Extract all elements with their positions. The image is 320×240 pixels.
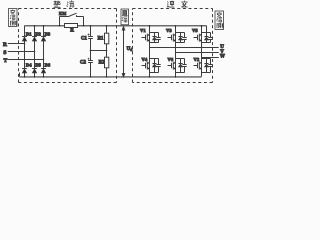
inverter leg 1 column lower bbox=[149, 48, 151, 77]
title 整流 (rectifier) hand-drawn glyphs bbox=[54, 1, 75, 8]
svg-text:V4: V4 bbox=[142, 57, 148, 62]
phase line S bbox=[8, 51, 35, 53]
svg-text:R: R bbox=[70, 29, 74, 34]
svg-text:d: d bbox=[130, 48, 132, 52]
V1 freewheel diode bbox=[152, 33, 156, 43]
node railB-col2 bbox=[34, 76, 36, 78]
inverter leg 3 column lower bbox=[201, 58, 203, 77]
node S-D2 bbox=[34, 51, 36, 53]
inverter section dashed box bbox=[133, 9, 213, 83]
output line V bbox=[176, 52, 219, 54]
DC+ top rail bbox=[25, 25, 207, 27]
V1 cell top link bbox=[150, 32, 159, 34]
inverter leg 2 column upper bbox=[175, 26, 177, 53]
V3 freewheel diode bbox=[178, 33, 182, 43]
rail end drop to V5 diode bbox=[206, 26, 208, 33]
svg-text:D1: D1 bbox=[26, 31, 32, 36]
svg-text:D4: D4 bbox=[26, 62, 32, 67]
svg-text:V3: V3 bbox=[166, 28, 172, 33]
V6 freewheel diode bbox=[178, 59, 182, 73]
svg-text:KM: KM bbox=[59, 11, 66, 16]
svg-text:D6: D6 bbox=[45, 62, 51, 67]
svg-text:C2: C2 bbox=[80, 61, 86, 66]
svg-text:W: W bbox=[220, 55, 225, 60]
node railB-col3 bbox=[43, 76, 45, 78]
node rail-col3 bbox=[43, 25, 45, 27]
svg-text:R1: R1 bbox=[98, 36, 104, 41]
V4 snubber capacitor bbox=[156, 59, 160, 73]
output line U bbox=[150, 47, 219, 49]
V5 snubber capacitor bbox=[208, 33, 212, 43]
svg-text:C1: C1 bbox=[81, 36, 87, 41]
V6 snubber capacitor bbox=[182, 59, 186, 73]
node T-D3 bbox=[43, 59, 45, 61]
rectifier section dashed box bbox=[19, 9, 117, 83]
diode D5 bbox=[32, 68, 37, 70]
svg-text:R: R bbox=[3, 42, 7, 48]
output line W bbox=[202, 57, 219, 59]
svg-text:D5: D5 bbox=[35, 62, 41, 67]
phase line R bbox=[8, 43, 25, 45]
svg-text:S: S bbox=[3, 50, 6, 56]
inverter leg 3 column upper bbox=[201, 26, 203, 58]
title 逆变 (inverter) hand-drawn glyphs bbox=[167, 1, 188, 8]
V3 snubber capacitor bbox=[182, 33, 186, 43]
svg-text:V1: V1 bbox=[140, 28, 146, 33]
svg-text:V2: V2 bbox=[194, 57, 200, 62]
stub at bottom-left rail end bbox=[19, 73, 21, 77]
svg-text:D3: D3 bbox=[45, 31, 51, 36]
V1 snubber capacitor bbox=[156, 33, 160, 43]
node railB-col1 bbox=[24, 76, 26, 78]
V2 snubber capacitor bbox=[208, 59, 212, 73]
DC- bottom rail bbox=[20, 76, 202, 78]
V4 freewheel diode bbox=[152, 59, 156, 73]
DC link box (middle, vertical 直流) bbox=[121, 9, 129, 25]
bridge column 2 bbox=[34, 26, 36, 77]
resistor R (precharge) bbox=[65, 24, 78, 28]
node rail-col2 bbox=[34, 25, 36, 27]
bridge column 1 bbox=[24, 26, 26, 77]
AC input box (left, vertical 交流侧) bbox=[9, 9, 18, 27]
bridge column 3 bbox=[43, 26, 45, 77]
phase line T bbox=[8, 59, 44, 61]
svg-text:T: T bbox=[4, 58, 8, 64]
svg-text:D2: D2 bbox=[35, 31, 41, 36]
V1 cell bottom link bbox=[150, 42, 159, 44]
diode D6 bbox=[41, 68, 46, 70]
AC output box (right, vertical 交流侧) bbox=[215, 11, 224, 30]
Ud measurement arrow bbox=[123, 29, 125, 75]
V2 freewheel diode bbox=[204, 59, 208, 73]
V5 freewheel diode bbox=[204, 33, 208, 43]
inverter leg 1 column upper bbox=[149, 26, 151, 48]
svg-text:V5: V5 bbox=[192, 28, 198, 33]
diode D2 bbox=[32, 36, 37, 38]
diode D1 bbox=[22, 36, 27, 38]
svg-text:V6: V6 bbox=[168, 57, 174, 62]
inverter leg 2 column lower bbox=[175, 53, 177, 77]
midpoint rail bbox=[91, 50, 107, 52]
diode D3 bbox=[41, 36, 46, 38]
diode D4 bbox=[22, 68, 27, 70]
node R-D1 bbox=[24, 43, 26, 45]
